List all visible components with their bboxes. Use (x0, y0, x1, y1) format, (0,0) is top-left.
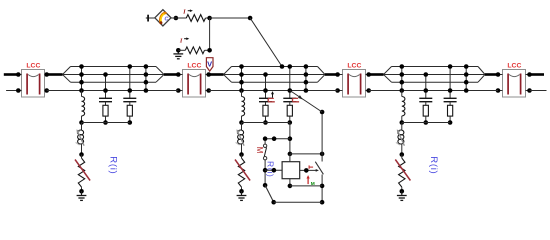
wire: left input feeder (thick) (4, 73, 18, 76)
label I of R2 (179, 37, 189, 44)
wire: fan-in of section 2 (318, 67, 338, 83)
wire: tap at x=289.3 section 2 (288, 64, 293, 98)
wire: mid rail y=185.4 (290, 185, 322, 187)
svg-text:V: V (207, 60, 212, 69)
capacitor C1b (123, 98, 136, 105)
nonlinear inductor L(i) section 1 (76, 123, 85, 157)
wire: box right connection with arrow (300, 168, 319, 173)
wire: fan-in of section 1 (156, 67, 178, 83)
svg-text:R(i): R(i) (108, 156, 119, 174)
resistor (damping) under C3a (423, 105, 428, 124)
wire: shunt node of section 2 (242, 122, 290, 124)
wire: shunt node of section 3 (402, 122, 450, 124)
svg-text:M: M (255, 147, 264, 154)
label I of R1 (182, 9, 193, 16)
wire: tap at x=449.6 section 3 (448, 64, 453, 98)
node A (207, 16, 250, 21)
wire: end tap of section 3 (464, 64, 469, 93)
nonlinear inductor L(i) section 3 (396, 123, 405, 157)
wire: bus lines of section 1 (63, 67, 165, 83)
wire: end tap of section 2 (304, 64, 309, 93)
svg-text:LCC: LCC (26, 63, 40, 70)
wire: feeder fan-out of section 3 (369, 67, 392, 83)
voltmeter probe V1 (206, 58, 213, 71)
label R(i) of section 2 (266, 161, 276, 178)
capacitor C3a (419, 98, 432, 105)
terminal P1 (146, 15, 155, 22)
wire: horizontal at y=138.2 (263, 136, 290, 141)
ground of R2 (173, 51, 183, 59)
wire: right output feeder (thick) (530, 73, 545, 76)
label M of switch (255, 147, 264, 154)
wire: box left connection (265, 168, 282, 173)
ground of section 3 (397, 191, 407, 200)
LCC coupler X4 (496, 63, 532, 97)
node after source (171, 16, 187, 21)
controlled switch S2 (right) (309, 162, 323, 175)
nonlinear inductor L(i) section 2 (236, 123, 245, 157)
svg-text:LCC: LCC (187, 63, 201, 70)
wire: diagonal feed with current arrow (290, 91, 322, 113)
nonlinear resistor R(i) section 3 (395, 155, 410, 194)
wire: shunt node of section 1 (82, 122, 130, 124)
wire: bus lines of section 3 (384, 67, 486, 83)
wire: feeder fan-out of section 2 (209, 67, 232, 83)
svg-text:I: I (182, 9, 186, 16)
wire: fan-in of section 3 (478, 67, 498, 83)
wire: vertical from node A to R2 (209, 18, 211, 50)
wire: shunt tap at x=241.0 section 2 (239, 64, 244, 93)
resistor (damping) under C1b (127, 105, 132, 124)
wire: tap at x=265.0 section 2 (263, 72, 268, 98)
resistor (damping) under C3b (448, 105, 453, 124)
capacitor C2a (259, 91, 275, 105)
wire: left input neutral (6, 90, 18, 92)
wire: shunt tap at x=401.3 section 3 (400, 64, 405, 93)
nonlinear resistor R(i) section 1 (75, 155, 90, 194)
switch blade to bottom rail (265, 185, 276, 204)
label R(i) of section 1 (108, 156, 119, 174)
wire: cap tap extension down (x=289.4) (288, 123, 293, 157)
resistor R1 (series) (186, 15, 209, 22)
nonlinear resistor R(i) section 2 (235, 155, 250, 194)
wire: bus lines of section 2 (224, 67, 326, 83)
LCC coupler X1 (16, 63, 49, 97)
inductor L2 (shunt coil) (239, 91, 244, 125)
current probe arrow (red, up) (307, 175, 315, 187)
svg-text:LCC: LCC (507, 63, 521, 70)
resistor (damping) under C2b (287, 105, 292, 124)
wire: neutral line of section 3 (369, 90, 498, 92)
wire: neutral line of section 1 (47, 90, 179, 92)
wire: top rail y=153.4 (290, 152, 325, 157)
wire: neutral line of section 2 (209, 90, 338, 92)
wire: tap at x=129.3 section 1 (128, 64, 133, 98)
wire: tap at x=105.0 section 1 (103, 72, 108, 98)
wire: shunt tap at x=81.0 section 1 (79, 64, 84, 93)
capacitor C1a (99, 98, 112, 105)
svg-text:I: I (179, 38, 183, 45)
capacitor C3b (444, 98, 457, 105)
label R(i) of section 3 (428, 156, 439, 174)
wire: feeder fan-out of section 1 (47, 67, 71, 83)
wire: bottom rail y=201.7 (274, 201, 322, 203)
svg-text:R(i): R(i) (428, 156, 439, 174)
nonlinear block U1 (square box) (282, 154, 300, 188)
wire: right column x=321.6 (320, 110, 325, 205)
resistor (damping) under C2a (263, 105, 268, 124)
ground of section 1 (77, 191, 87, 200)
capacitor C2b (283, 98, 299, 105)
svg-text:LCC: LCC (347, 63, 361, 70)
resistor (damping) under C1a (103, 105, 108, 124)
wire: end tap of section 1 (144, 64, 149, 93)
ground of section 2 (237, 191, 247, 200)
node B and feed diagonal to section 2 (248, 16, 285, 69)
resistor R2 (to ground) (176, 47, 212, 54)
inductor L3 (shunt coil) (400, 91, 405, 125)
switch M (relay contact) (263, 140, 268, 187)
wire: tap at x=425.3 section 3 (424, 72, 429, 98)
controlled current source SRC1 (diamond) (155, 10, 171, 26)
LCC coupler X3 (335, 63, 371, 97)
LCC coupler X2 (176, 63, 211, 97)
wire: right output neutral (530, 90, 547, 92)
inductor L1 (shunt coil) (79, 91, 84, 125)
